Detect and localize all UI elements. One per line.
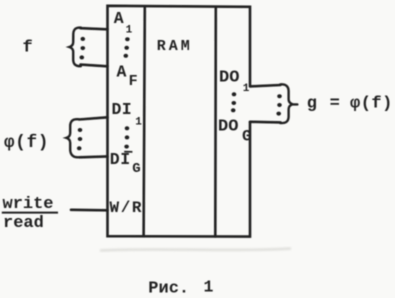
dots DO column xyxy=(231,92,236,112)
RAM block outer box xyxy=(108,6,251,237)
dots g brace xyxy=(276,94,281,115)
svg-text:g: g xyxy=(307,95,317,114)
svg-text:1: 1 xyxy=(243,83,250,95)
wire DI1 input xyxy=(79,117,108,119)
svg-text:G: G xyxy=(242,127,252,145)
wire A1 input xyxy=(81,28,108,29)
svg-text:1: 1 xyxy=(126,25,133,37)
svg-text:DO: DO xyxy=(219,68,239,87)
svg-text:Рис.: Рис. xyxy=(148,279,189,298)
svg-text:1: 1 xyxy=(204,277,214,296)
svg-text:read: read xyxy=(3,214,44,233)
svg-text:RAM: RAM xyxy=(157,38,193,55)
svg-text:A: A xyxy=(114,9,124,28)
wire DIG input xyxy=(80,155,108,159)
brace g output xyxy=(280,84,297,123)
svg-text:DI: DI xyxy=(110,150,131,169)
svg-text:DO: DO xyxy=(218,118,238,137)
svg-text:DI: DI xyxy=(112,100,132,119)
svg-text:=: = xyxy=(330,95,340,114)
wire DO1 output xyxy=(250,85,281,86)
dots f brace xyxy=(80,37,86,60)
dots A column xyxy=(124,37,130,58)
wire W/R input xyxy=(71,209,108,212)
svg-text:G: G xyxy=(132,161,140,177)
divider output strip xyxy=(214,7,217,237)
wire DOG output xyxy=(250,121,281,124)
svg-text:write: write xyxy=(3,195,54,214)
svg-text:1: 1 xyxy=(135,116,142,128)
fraction bar write/read xyxy=(2,212,58,214)
brace phi(f) group xyxy=(66,119,78,157)
svg-text:A: A xyxy=(117,63,127,82)
brace f group xyxy=(69,28,80,67)
divider address/data strip xyxy=(144,6,145,236)
svg-text:W/R: W/R xyxy=(110,199,144,217)
faint scan smudge under box xyxy=(100,249,291,251)
svg-text:φ(f): φ(f) xyxy=(350,95,393,114)
svg-text:φ(f): φ(f) xyxy=(4,133,49,153)
wire AF input xyxy=(81,65,108,67)
svg-text:F: F xyxy=(129,73,138,90)
svg-text:f: f xyxy=(23,39,33,58)
dots DI column xyxy=(124,126,129,148)
dots phi brace xyxy=(77,128,82,150)
